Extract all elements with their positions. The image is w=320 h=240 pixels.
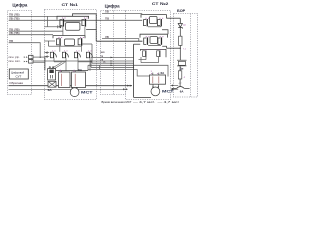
clutch coil EM3 (CT2) xyxy=(150,75,166,84)
resistor R1 (BOR) xyxy=(179,36,182,45)
block frame: steering unit CT No1 (dashed box) xyxy=(45,10,97,100)
wire: diagonal to tacho 1 xyxy=(50,63,62,70)
wire: T2 down links xyxy=(59,46,61,52)
svg-text:ЛВ: ЛВ xyxy=(105,35,109,39)
wire: lower cross link T2 xyxy=(49,45,82,47)
transistor VT11 base bar xyxy=(147,37,148,44)
wire: input ПВ(ЛВ) channel 1 xyxy=(9,15,57,17)
svg-text:Цифра: Цифра xyxy=(105,4,121,9)
pin dots trigger T2 xyxy=(59,37,84,38)
pin dots CT2 T2 xyxy=(146,36,164,37)
transistor VT9 base bar xyxy=(147,19,148,26)
transistor VT1 base bar xyxy=(63,19,64,27)
pin dots amplifier cells xyxy=(52,49,91,52)
bus wire: CT1 out line 3 xyxy=(92,62,134,64)
svg-text:Обратная: Обратная xyxy=(9,81,23,85)
double arrow marks xyxy=(24,56,26,58)
svg-text:БОР: БОР xyxy=(177,9,186,13)
connector X1 (left, to digital computer) xyxy=(29,55,34,59)
arrowheads on mid lines xyxy=(111,57,114,59)
feedback wire 1 with arrow xyxy=(9,85,133,87)
block frame: input unit Цифра (left dashed box) xyxy=(8,11,32,95)
dark bus: bottom feed to motor M2 xyxy=(134,96,152,98)
bus wire: CT1 out line 1 xyxy=(91,56,134,58)
cross-coupling loop CT2 T1 xyxy=(150,17,158,24)
trigger T2 of CT2: top rail xyxy=(140,34,167,37)
zener diode VD4 in BOR xyxy=(178,24,182,28)
cross-coupling loop CT2 T2 xyxy=(150,37,158,44)
wire: input ПВ row 5 with bend down xyxy=(9,43,41,58)
wire: diode input line xyxy=(44,26,63,28)
svg-text:сигн. упр.: сигн. упр. xyxy=(9,56,20,59)
trigger T2 of CT1: top rail xyxy=(53,36,85,39)
wire: relay to resistor R2 xyxy=(179,66,181,71)
wire: VT2 collector down to T2 rail xyxy=(84,27,86,36)
diode VD3 input of amplifier xyxy=(45,55,48,57)
trigger of CT2: top rail xyxy=(141,15,166,19)
cell VT6 xyxy=(62,52,68,58)
block: digital computer CVT xyxy=(9,69,28,79)
svg-text:— 4,7 мс¹: — 4,7 мс¹ xyxy=(158,100,180,104)
wire: input ЛВ channel 2 xyxy=(102,12,142,14)
bus wire: connector to CT1 amp xyxy=(33,56,44,58)
connector labels xyxy=(9,56,21,63)
wire: collector link over trigger T1 xyxy=(73,14,97,41)
transistor VT4 base bar xyxy=(81,38,82,46)
block frame: BOR unit (right dashed box) xyxy=(174,14,198,98)
wire: CT2 T1 output xyxy=(162,30,168,34)
svg-text:ЛВ (ПВ): ЛВ (ПВ) xyxy=(9,31,20,35)
svg-text:Дм: Дм xyxy=(180,67,184,70)
diode VD2 input of amplifier xyxy=(45,51,48,53)
wire: CT2 cell links below xyxy=(139,59,147,61)
wire: VT1 collector down to T2 xyxy=(62,27,64,36)
transistor VT12 hook xyxy=(158,38,160,44)
wire: amplifier input 2 xyxy=(44,56,49,58)
wire: T2 output to bus drop xyxy=(82,43,92,45)
svg-text:СТ №1: СТ №1 xyxy=(62,2,79,7)
wire: clutch top rail CT1 xyxy=(56,70,88,72)
block frame: steering unit CT No2 (dashed box) xyxy=(126,11,171,100)
transistor VT3 hook xyxy=(57,39,60,45)
wire: junction drop x99.5 xyxy=(99,65,101,69)
clutch coil EM1 (CT1) xyxy=(59,72,71,88)
wire: T1 output right xyxy=(86,29,96,31)
diode VD1 on trigger input xyxy=(58,25,61,28)
bus wire: dark link to CT2 xyxy=(91,66,134,68)
wire: coil leads to motor M2 xyxy=(152,84,154,87)
contact dots above tachogenerator xyxy=(49,67,50,68)
wire: CT2 rail to BOR xyxy=(167,17,181,19)
cell VT14 hook xyxy=(157,51,159,57)
block frame: input unit Цифра-2 (middle dashed box) xyxy=(101,11,126,95)
wire: input ЛВ row 3 channel 2 with bend xyxy=(102,39,139,42)
partition line inside middle box xyxy=(113,11,115,95)
tachogenerator block (CT1) xyxy=(48,69,56,80)
transistor VT12 base bar xyxy=(161,37,162,44)
transistor VT3 base bar xyxy=(59,38,60,46)
wire: cell link row xyxy=(54,61,66,63)
wire: connector line into CT1 down xyxy=(44,57,46,70)
wire: cross link CT2 T2 xyxy=(148,44,161,46)
wire: CT2 T2 exit to BOR feed xyxy=(162,46,166,48)
pin dots CT2 cells xyxy=(144,48,161,51)
wire: input ЛВ(ПВ) row 4 xyxy=(9,34,53,36)
wire: CT2 to BOR node xyxy=(167,47,181,49)
pin ticks on clutch coils xyxy=(61,71,63,72)
wire: zener to resistor xyxy=(179,28,181,37)
svg-text:Время включения МСТ: Время включения МСТ xyxy=(102,100,132,104)
bus wire: line to CT2 coil right xyxy=(88,65,168,76)
wire: amplifier outputs down xyxy=(65,58,67,71)
svg-text:Цифра: Цифра xyxy=(12,2,28,7)
resistor R2 (BOR) xyxy=(178,71,181,79)
input labels channel 1 xyxy=(9,13,20,43)
transistor VT10 hook xyxy=(158,20,161,26)
svg-text:СТ №2: СТ №2 xyxy=(152,1,169,6)
wire: junction drop x91 xyxy=(90,61,92,67)
transistor VT11 hook xyxy=(144,38,147,44)
wire: stub to CT2 trigger xyxy=(134,43,141,45)
thick bus: CT1 output to CT2 base xyxy=(96,40,142,42)
cell VT5 xyxy=(50,52,56,58)
arrows into CT2 from BOR xyxy=(173,85,178,87)
partition line inside BOR box xyxy=(190,14,192,98)
bus wire: command line 2 xyxy=(33,60,134,62)
bus wire: line to CT2 coil left with bends xyxy=(88,70,150,77)
wire: resistor to node xyxy=(179,45,181,48)
wire: cross link CT2 T1 xyxy=(148,26,161,28)
wire: input ЛВ(ПВ) channel 1 (long bus to CT2) xyxy=(9,19,143,21)
svg-text:ЛВ (ПВ): ЛВ (ПВ) xyxy=(9,17,20,21)
dark bus: CT2 power column xyxy=(133,44,135,97)
transistor VT2 base bar xyxy=(85,19,86,27)
svg-text:— 4,7 мс¹: — 4,7 мс¹ xyxy=(133,100,155,104)
contact button SA1 (BOR) xyxy=(177,87,185,89)
wire: diagonal to tacho 2 xyxy=(53,63,65,70)
clutch coil EM2 (CT1) xyxy=(72,72,86,88)
svg-text:МСТ: МСТ xyxy=(81,90,93,94)
wire: cross link T1 xyxy=(64,20,80,22)
wire: amplifier input 1 xyxy=(44,52,49,54)
motor M2 (MCT) xyxy=(151,87,160,96)
wire: input ПВ(ЛВ) row 3 xyxy=(9,30,63,32)
transistor VT10 base bar xyxy=(161,19,162,26)
svg-text:ПВ: ПВ xyxy=(9,39,13,43)
trigger T1 of CT1: top rail xyxy=(57,16,89,19)
pin ticks CT2 coil xyxy=(152,73,154,75)
wire: R2 down to contact xyxy=(179,79,181,87)
cell VT14 bar xyxy=(159,50,160,57)
cell VT13 hook xyxy=(143,51,145,57)
transistor VT9 hook xyxy=(144,20,147,26)
pin dots trigger T1 xyxy=(62,18,88,19)
feedback wire 2 with arrow xyxy=(9,88,127,90)
motor M1 (MCT) xyxy=(70,88,79,97)
cell VT8 xyxy=(86,52,92,58)
pin dots CT2 T1 xyxy=(146,18,164,19)
svg-text:ПВ: ПВ xyxy=(105,17,109,21)
wire: connector pin 2b line xyxy=(33,61,45,63)
cross-coupling loop T1 xyxy=(66,23,80,31)
svg-text:ЛВ: ЛВ xyxy=(105,10,109,14)
wire: base feed T2 xyxy=(44,40,55,42)
transistor VT4 hook xyxy=(78,39,81,45)
pin number labels magenta xyxy=(60,24,187,78)
wire: drop to diode line xyxy=(47,16,49,26)
mid signal labels xyxy=(101,51,107,64)
cross-coupling loop T2 xyxy=(65,39,75,46)
cell VT7 xyxy=(74,52,80,58)
svg-text:СУТ: СУТ xyxy=(16,75,22,79)
node junction xyxy=(180,48,181,49)
cell VT13 bar xyxy=(145,50,146,57)
relay EM4 (BOR) plates and core xyxy=(177,59,187,61)
input labels channel 2 xyxy=(105,10,109,39)
wire: node down to relay EM4 xyxy=(179,48,181,60)
amplifier cells of CT2: top rail xyxy=(141,49,167,57)
transistor VT1 hook xyxy=(60,20,63,26)
junction node bus xyxy=(90,60,91,61)
svg-text:МСТ: МСТ xyxy=(162,90,174,94)
svg-text:сигн. согл.: сигн. согл. xyxy=(9,60,21,63)
transistor VT2 hook xyxy=(82,20,85,26)
brake block with cross (CT1) xyxy=(48,81,56,87)
